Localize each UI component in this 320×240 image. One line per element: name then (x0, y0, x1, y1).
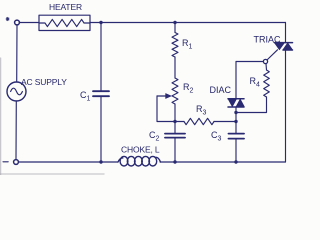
wire terminal to heater (20, 22, 39, 24)
wire C2 upper lead (174, 122, 176, 134)
plus terminal mark (6, 17, 9, 20)
node R3/C3 junction (234, 120, 237, 123)
wiper arrow R2 (157, 95, 167, 97)
capacitor C2 (165, 134, 185, 138)
wire top terminal down to AC source (16, 25, 18, 82)
resistor element HEATER (39, 19, 90, 26)
wire R3 to diac column (214, 121, 236, 123)
wire triac MT2 to top wire (285, 23, 287, 43)
terminal bottom-left (14, 160, 19, 165)
resistor R4 (264, 70, 270, 97)
terminal top-left (15, 20, 20, 25)
wire C1 branch lower (100, 96, 102, 162)
wire triac MT1 down right edge (285, 50, 287, 162)
node heater/C1 junction (99, 21, 102, 24)
wire C2 lower lead (174, 138, 176, 162)
AC source sine wave (11, 88, 23, 95)
wire junction to R3 (175, 121, 184, 123)
resistor R2 potentiometer (172, 78, 178, 104)
AC source circle (7, 82, 26, 101)
minus terminal mark (3, 161, 8, 163)
wire choke to bottom-right corner (160, 161, 286, 163)
wire junction to C3 (235, 122, 237, 134)
heater box (39, 15, 90, 30)
svg-text:DIAC: DIAC (210, 85, 232, 95)
node C1 bottom junction (99, 160, 102, 163)
svg-text:HEATER: HEATER (49, 2, 82, 12)
node diac/R4 junction (234, 111, 237, 114)
node C3 bottom junction (234, 160, 237, 163)
wire R4 bottom return to diac junction (236, 97, 267, 113)
scan edge artifact bottom (0, 173, 104, 175)
wire heater to top-right corner (90, 22, 286, 24)
wire R4 top lead (265, 64, 268, 70)
wire C1 branch upper (100, 23, 102, 92)
capacitor C3 (229, 134, 245, 139)
wire bottom terminal to choke (19, 161, 118, 163)
inductor CHOKE L (118, 156, 161, 166)
triac Q1 symbol (275, 43, 293, 50)
wire wiper loop left (157, 96, 175, 122)
capacitor C1 (93, 91, 109, 96)
diac D1 symbol (228, 99, 244, 107)
node TRIAC gate (263, 59, 267, 63)
resistor R1 (172, 33, 178, 58)
resistor R3 (184, 118, 214, 124)
node top R1 junction (173, 21, 176, 24)
wire TRIAC gate lead (267, 50, 277, 60)
wire R1 top lead (174, 23, 176, 33)
wire AC source to bottom terminal (15, 101, 17, 159)
svg-text:CHOKE, L: CHOKE, L (121, 145, 160, 155)
wire C3 lower lead (235, 139, 237, 162)
node R2/R3/C2 junction (173, 120, 176, 123)
svg-text:AC SUPPLY: AC SUPPLY (21, 77, 67, 87)
wire R1 to R2 (174, 57, 176, 78)
svg-text:TRIAC: TRIAC (254, 34, 282, 44)
node C2 bottom junction (173, 160, 176, 163)
wire diac bottom to junctions (235, 107, 237, 122)
wire gate node to diac top (236, 62, 263, 99)
wire R2 bottom lead (174, 104, 176, 122)
scan edge artifact left (0, 58, 2, 175)
